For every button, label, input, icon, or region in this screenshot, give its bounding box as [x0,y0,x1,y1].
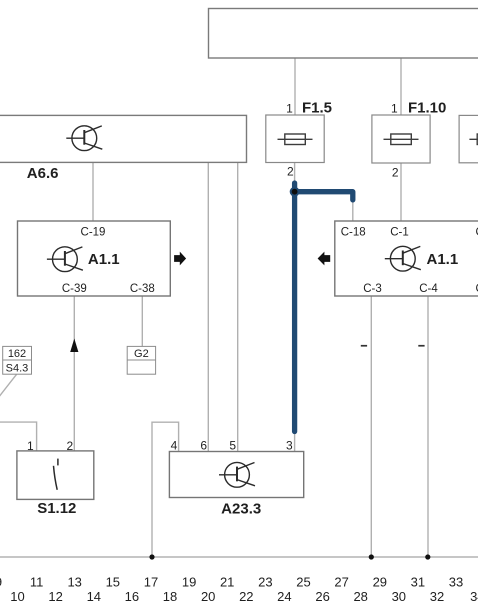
svg-text:16: 16 [125,589,139,604]
svg-text:25: 25 [296,575,310,590]
svg-text:9: 9 [0,575,2,590]
svg-text:2: 2 [392,166,399,180]
svg-text:21: 21 [220,575,234,590]
svg-text:33: 33 [449,575,463,590]
svg-text:3: 3 [286,439,293,453]
svg-text:S4.3: S4.3 [6,363,29,375]
svg-text:11: 11 [30,575,44,590]
svg-text:4: 4 [171,439,178,453]
svg-text:C-1: C-1 [390,227,409,239]
svg-text:26: 26 [315,589,329,604]
svg-text:1: 1 [27,439,34,453]
svg-text:A23.3: A23.3 [221,501,261,518]
svg-text:A1.1: A1.1 [88,251,120,268]
svg-text:2: 2 [67,439,74,453]
svg-text:C-3: C-3 [363,283,382,295]
svg-text:23: 23 [258,575,272,590]
svg-text:162: 162 [8,348,26,360]
svg-text:C-39: C-39 [62,283,87,295]
svg-text:14: 14 [87,589,101,604]
svg-text:19: 19 [182,575,196,590]
svg-text:C-18: C-18 [341,227,366,239]
svg-text:34: 34 [470,589,478,604]
svg-text:C-19: C-19 [81,227,106,239]
svg-text:2: 2 [287,165,294,179]
svg-text:G2: G2 [134,348,149,360]
svg-text:F1.10: F1.10 [408,100,446,117]
svg-text:F1.5: F1.5 [302,100,332,117]
svg-text:6: 6 [200,439,207,453]
svg-text:22: 22 [239,589,253,604]
svg-text:1: 1 [286,102,293,116]
svg-text:A1.1: A1.1 [427,251,459,268]
svg-text:27: 27 [334,575,348,590]
svg-text:20: 20 [201,589,215,604]
svg-text:29: 29 [373,575,387,590]
svg-text:13: 13 [67,575,81,590]
svg-text:S1.12: S1.12 [37,500,76,517]
svg-text:32: 32 [430,589,444,604]
svg-text:12: 12 [48,589,62,604]
svg-text:1: 1 [391,102,398,116]
svg-text:18: 18 [163,589,177,604]
svg-text:15: 15 [106,575,120,590]
svg-text:5: 5 [229,439,236,453]
svg-text:31: 31 [411,575,425,590]
svg-text:30: 30 [392,589,406,604]
svg-text:10: 10 [10,589,24,604]
svg-text:A6.6: A6.6 [27,165,59,182]
svg-text:C-38: C-38 [130,283,155,295]
svg-text:17: 17 [144,575,158,590]
svg-text:24: 24 [277,589,291,604]
svg-text:28: 28 [353,589,367,604]
svg-text:C-4: C-4 [419,283,438,295]
